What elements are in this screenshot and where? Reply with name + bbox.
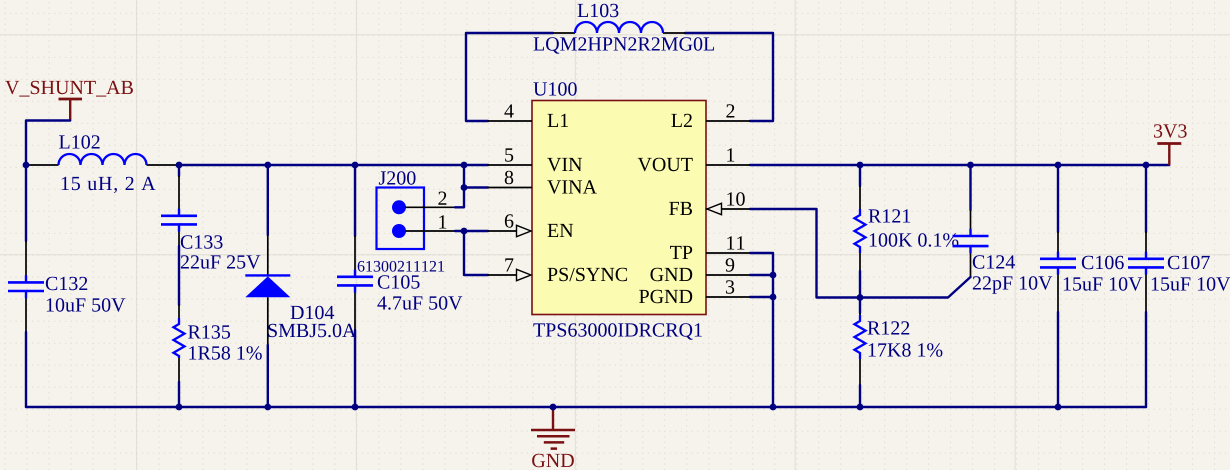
wire D104 top wire <box>267 165 269 235</box>
U100 pin 2 L2 <box>706 120 750 122</box>
wire TP GND PGND merge column <box>750 253 773 407</box>
inductor L102 <box>26 154 179 165</box>
node rail-L102 <box>23 162 30 169</box>
resistor R122 <box>855 313 866 385</box>
node rail-mid <box>461 162 468 169</box>
net label 3V3 <box>1154 124 1187 138</box>
pin name VINA <box>547 180 597 194</box>
wire bottom GND rail <box>26 406 1146 408</box>
node GND9-merge <box>770 272 777 279</box>
pin number 6 <box>505 214 514 227</box>
pin name L2 <box>671 114 692 127</box>
node VOUT-C107 <box>1143 162 1150 169</box>
value 15uF 10V C106 <box>1064 277 1143 291</box>
pin name PGND <box>639 290 692 303</box>
U100 pin 7 PS/SYNC <box>488 274 517 276</box>
diode D104 <box>245 235 290 345</box>
op-amp U100 body <box>532 101 706 315</box>
node VOUT-R121 <box>857 162 864 169</box>
wire R121 bottom wire <box>859 271 861 298</box>
pin name L1 <box>548 114 568 127</box>
wire PGND wire <box>750 296 773 298</box>
U100 pin 3 PGND <box>706 296 750 298</box>
value 17K8 1% <box>869 343 943 357</box>
wire FB wire <box>750 209 860 298</box>
J200 pin number 1 <box>439 215 446 228</box>
label C124 <box>973 255 1015 268</box>
pin name FB <box>669 202 692 215</box>
capacitor C106 <box>1040 232 1076 312</box>
wire C106 top wire <box>1057 165 1059 232</box>
pin name TP <box>670 246 692 259</box>
wire C132 top wire <box>25 165 27 241</box>
pin name VIN <box>547 158 582 171</box>
node rail-C133 <box>176 162 183 169</box>
node gnd-C133 <box>176 404 183 411</box>
wire C106 bottom wire <box>1057 312 1059 407</box>
inductor L103 <box>553 22 685 33</box>
label U100 <box>533 82 576 95</box>
label L102 <box>59 135 100 148</box>
node gnd-R122 <box>857 404 864 411</box>
wire C124 top wire <box>969 165 971 210</box>
resistor R135 <box>174 305 185 382</box>
wire R121 top wire <box>859 165 861 186</box>
wire GND9 wire <box>750 274 773 276</box>
label R121 <box>869 209 911 222</box>
wire V_SHUNT_AB to rail <box>26 121 70 166</box>
wire VOUT rail <box>750 164 1169 166</box>
power port V_SHUNT_AB <box>59 99 83 121</box>
wire C132 bottom wire <box>25 332 27 407</box>
label C107 <box>1168 256 1210 269</box>
wire J200 pin2 to VINA <box>455 188 464 208</box>
wire EN wire <box>464 230 488 232</box>
U100 pin 5 VIN <box>488 164 532 166</box>
U100 pin 6 EN <box>488 230 517 232</box>
wire C124 to FB node wire <box>860 277 971 298</box>
node gnd-merge <box>770 404 777 411</box>
wire D104 bottom wire <box>267 345 269 407</box>
U100 pin 10 input arrow <box>707 203 722 214</box>
node gnd-C106 <box>1055 404 1062 411</box>
U100 pin 4 L1 <box>488 120 532 122</box>
pin number 8 <box>505 171 513 184</box>
wire L1 to L103 left <box>466 33 553 121</box>
pin name EN <box>548 224 574 237</box>
capacitor C105 <box>337 236 373 330</box>
value 4.7uF 50V <box>377 296 462 310</box>
wire R135 bottom wire <box>178 382 180 407</box>
value 61300211121 <box>358 261 444 272</box>
wire J200 pin1 to EN <box>455 230 464 232</box>
wire C107 bottom wire <box>1145 312 1147 407</box>
node EN-junction <box>461 228 468 235</box>
value 100K 0.1% <box>870 233 959 247</box>
wire C105 bottom wire <box>354 330 356 407</box>
pin number 9 <box>726 258 735 271</box>
U100 pin 8 VINA <box>488 187 532 189</box>
ground label GND <box>532 454 574 467</box>
value TPS63000IDRCRQ1 <box>533 323 701 340</box>
wire C133 to R135 wire <box>178 246 180 305</box>
power port 3V3 <box>1157 144 1181 166</box>
net label V_SHUNT_AB <box>5 81 133 97</box>
node VOUT-C124 <box>967 162 974 169</box>
wire R122 bottom wire <box>859 385 861 407</box>
U100 pin 6 input arrow <box>517 225 532 236</box>
wire VINA wire <box>464 186 488 188</box>
wire C133 top wire <box>178 165 180 176</box>
wire R122 top wire <box>859 298 861 314</box>
pin number 3 <box>726 280 734 293</box>
wire EN to PSSYNC drop <box>464 231 488 275</box>
value 22uF 25V <box>181 255 260 269</box>
value 15uF 10V C107 <box>1152 277 1230 291</box>
capacitor C107 <box>1128 232 1164 312</box>
connector J200 <box>377 188 456 250</box>
capacitor C132 <box>8 241 44 332</box>
label D104 <box>291 306 335 319</box>
label R135 <box>188 325 230 338</box>
value SMBJ5.0A <box>268 324 356 338</box>
U100 pin 1 VOUT <box>706 164 750 166</box>
U100 pin 9 GND <box>706 274 750 276</box>
node VINA-junction <box>461 184 468 191</box>
label C132 <box>46 277 87 290</box>
label C133 <box>181 235 223 248</box>
pin name VOUT <box>638 158 693 172</box>
wire rail to VINA drop <box>463 165 465 188</box>
resistor R121 <box>855 186 866 271</box>
pin number 10 <box>727 192 744 205</box>
node gnd-sym <box>550 404 557 411</box>
node gnd-C105 <box>352 404 359 411</box>
value 15 uH 2 A <box>62 177 156 193</box>
pin name PS/SYNC <box>548 268 627 281</box>
node gnd-D104 <box>264 404 271 411</box>
capacitor C133 <box>161 176 197 246</box>
value 22pF 10V <box>973 276 1052 294</box>
pin name GND <box>650 268 692 281</box>
pin number 11 <box>727 236 744 249</box>
label R122 <box>868 321 910 334</box>
node FB-R121R122 <box>857 294 864 301</box>
U100 pin 10 FB <box>706 208 750 210</box>
pin number 2 <box>726 104 734 117</box>
label C106 <box>1082 256 1124 269</box>
pin number 5 <box>505 148 513 161</box>
U100 pin 11 TP <box>706 252 750 254</box>
capacitor C124 <box>953 210 989 277</box>
U100 pin 7 input arrow <box>517 269 532 280</box>
pin number 4 <box>504 104 513 117</box>
value LQM2HPN2R2MG0L <box>534 37 714 54</box>
wire C105 J200 column top <box>354 165 356 236</box>
label C105 <box>378 275 420 288</box>
wire L103 right to L2 <box>685 33 773 121</box>
ground GND symbol <box>531 407 575 449</box>
pin number 1 <box>727 148 734 161</box>
node rail-C105 <box>352 162 359 169</box>
J200 pin number 2 <box>438 192 446 205</box>
value 1R58 1% <box>189 346 262 360</box>
wire VIN rail <box>179 164 488 166</box>
node rail-D104 <box>264 162 271 169</box>
node VOUT-C106 <box>1055 162 1062 169</box>
pin number 7 <box>505 258 513 271</box>
label L103 <box>578 4 619 17</box>
node PGND-merge <box>770 294 777 301</box>
value 10uF 50V <box>47 298 126 312</box>
wire C107 top wire <box>1145 165 1147 232</box>
label J200 <box>379 171 416 184</box>
